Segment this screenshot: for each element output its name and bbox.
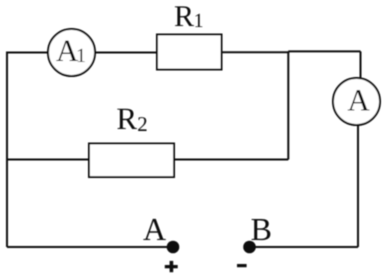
terminal A node	[143, 219, 179, 253]
wire terminal B to bottom right	[250, 246, 359, 248]
wire top-left horizontal	[6, 52, 71, 54]
resistor R2	[89, 109, 174, 177]
wire below ammeter A down right side	[357, 102, 359, 248]
terminal B node	[243, 219, 270, 253]
ammeter A	[333, 78, 380, 125]
wire R2 to branch	[174, 159, 288, 161]
wire left to R2	[7, 159, 89, 161]
minus polarity mark	[237, 264, 247, 267]
wire top-right vertical into ammeter A	[360, 51, 362, 101]
plus polarity mark	[165, 261, 178, 272]
wire R1 to branch node	[222, 51, 290, 53]
wire branch node to top-right corner	[288, 50, 360, 52]
wire A1 to R1	[72, 52, 157, 54]
resistor R1	[157, 6, 222, 69]
ammeter A1	[48, 29, 95, 76]
wire left vertical	[6, 53, 8, 248]
wire bottom left to terminal A	[7, 246, 173, 248]
wire branch vertical node to R2	[287, 51, 289, 159]
